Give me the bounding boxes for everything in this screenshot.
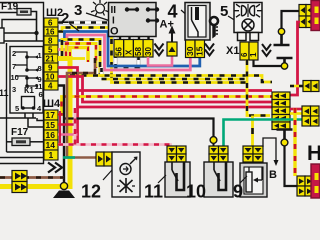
- svg-text:16: 16: [46, 28, 55, 37]
- svg-text:17: 17: [46, 110, 56, 120]
- top right connector 2x2 cells: [299, 5, 313, 28]
- fuse F19: [17, 9, 31, 16]
- wire yellow-black from X1 pin 6 down to cluster and item 9: [247, 60, 270, 116]
- crimson block bottom right: [311, 164, 320, 198]
- wire: [2, 20, 36, 29]
- svg-text:10: 10: [11, 73, 19, 82]
- wire black branch to item 10: [64, 119, 214, 138]
- item 3 pin cells 56 X 58 30: [114, 40, 153, 58]
- wire blue from Ш2 pin 8 to item4 pin 15: [58, 32, 200, 67]
- wire black from X1 pin 1 to terminal: [254, 60, 282, 66]
- item 3 contacts row 1: [125, 7, 159, 11]
- svg-text:X: X: [124, 49, 133, 55]
- wire crimson from Ш2 pin 9 down and right to cluster: [58, 68, 78, 145]
- terminal node: [281, 139, 288, 146]
- svg-text:15: 15: [194, 46, 204, 56]
- headlight symbol right: [250, 4, 262, 17]
- ground symbol: [53, 191, 75, 199]
- relay K1 pin numbers left: [11, 49, 19, 94]
- svg-text:30: 30: [144, 47, 153, 56]
- contact dots upper: [25, 55, 29, 59]
- wires below relay: [0, 113, 44, 127]
- item 3 pin legs: [120, 37, 149, 41]
- svg-text:10: 10: [46, 73, 55, 82]
- connector cell under A+ arrow: [167, 42, 177, 56]
- bottom right connector 2x2: [297, 176, 313, 196]
- fuse F17: [12, 138, 30, 146]
- pointer line for 12: [103, 170, 112, 180]
- wire yellow inner loop: [66, 44, 96, 69]
- F17 wires: [7, 142, 45, 152]
- relay K1 pin numbers right: [35, 51, 43, 99]
- svg-text:2: 2: [12, 49, 16, 58]
- inner divider wire: [6, 43, 8, 152]
- svg-text:9: 9: [233, 182, 243, 201]
- svg-text:5: 5: [15, 104, 19, 113]
- relay K1 contact group lower: [15, 76, 38, 86]
- svg-text:58: 58: [134, 47, 143, 56]
- item 11 box: [165, 162, 190, 197]
- switch item 3 box: [109, 3, 157, 37]
- wire from F19: [31, 12, 37, 42]
- terminal node: [281, 63, 287, 69]
- right connector block B: [302, 106, 319, 126]
- wire yellow-black from Ш2 pin 16, loops down to bundle row: [58, 28, 247, 83]
- wire black from Ш2 pin 4 down to ground: [58, 86, 64, 185]
- pointer line for 4: [181, 10, 190, 18]
- wire yellow-black stub cluster to right block: [290, 85, 303, 88]
- item 10 box: [204, 162, 233, 197]
- pointer line for 5: [228, 16, 236, 21]
- pointer line for 9: [240, 176, 247, 183]
- svg-text:X1: X1: [226, 45, 239, 57]
- svg-text:2: 2: [61, 10, 69, 27]
- wire crimson from top-right connector down to cluster: [290, 22, 300, 95]
- connector Ш4 pin strip: [44, 110, 58, 160]
- svg-text:7: 7: [12, 62, 16, 71]
- pointer line for 2: [70, 24, 79, 31]
- relay K1 box: [10, 47, 43, 114]
- wire pink from Ш2 pin 5 to item4 pin 30: [58, 35, 190, 70]
- wire yellow stub cluster to block B: [290, 112, 302, 115]
- arrow up to battery: [169, 26, 176, 43]
- item 10 connector 2x2: [209, 146, 228, 162]
- wire crimson bus on Ш4: [59, 111, 61, 146]
- arrow chevrons down after item 3 pins: [155, 44, 164, 56]
- connector Ш2 pin strip: [44, 18, 58, 91]
- wire with junction: [0, 32, 37, 34]
- svg-text:F17: F17: [11, 127, 29, 138]
- svg-text:F19: F19: [1, 2, 19, 13]
- svg-text:Н: Н: [307, 142, 320, 165]
- svg-text:11: 11: [144, 182, 163, 201]
- svg-text:3: 3: [12, 85, 16, 94]
- headlight symbol left: [235, 4, 247, 17]
- item 4 inner contact drawing: [188, 6, 206, 38]
- item 10 switch symbol: [214, 162, 226, 190]
- wire red-white dashed from bundle to item 11: [58, 108, 171, 147]
- wire yellow inner loop 2: [70, 48, 88, 63]
- wire black from top-right connector to terminal: [282, 11, 300, 29]
- arrow chevrons down after X1: [262, 44, 271, 56]
- wire yellow stub: [70, 57, 85, 60]
- wire yellow-black bundle row from yellow band to cluster: [70, 76, 272, 83]
- wire to fuse F19: [0, 12, 17, 14]
- lamp cluster item 5 box: [234, 3, 262, 41]
- item 9 box: [240, 163, 267, 197]
- svg-text:В: В: [269, 169, 277, 181]
- right connector block A: [303, 81, 319, 92]
- wire stub into item 10: [213, 143, 215, 146]
- wire yellow band from Ш2 pin 21 down to bottom left: [0, 59, 70, 187]
- terminal T-bar ground: [274, 35, 290, 45]
- wire crimson bundle row: [78, 89, 273, 92]
- svg-text:21: 21: [46, 55, 55, 64]
- node junction: [34, 31, 38, 35]
- crimson block top right: [311, 1, 320, 31]
- contact arrows upper: [35, 55, 39, 58]
- wire white-black from Ш2 pin 6 to item3 pin 58: [58, 23, 139, 68]
- item 3 contacts row 2: [146, 18, 159, 22]
- wire green stub at ground junction: [63, 156, 75, 159]
- svg-text:6: 6: [48, 19, 53, 28]
- wire yellow branch down to item 9 connector: [251, 116, 254, 147]
- pointer line for 11: [158, 175, 166, 183]
- wire pink stub Ш4 pin 16: [58, 133, 78, 136]
- wire red stub cluster to block B: [290, 108, 302, 111]
- svg-text:15: 15: [46, 120, 56, 130]
- item 11 switch symbol: [172, 162, 184, 190]
- wire crimson bundle row lower: [78, 106, 273, 109]
- node on wire to item 10: [210, 137, 217, 144]
- svg-text:12: 12: [81, 182, 101, 201]
- item 9 inner: [244, 167, 263, 194]
- item 4 pin cells 30 15: [185, 40, 205, 58]
- wire yellow-red bundle row from Ш4 pin 17: [58, 97, 272, 115]
- connector X1 cells: [240, 42, 258, 60]
- svg-text:8: 8: [38, 64, 42, 73]
- wire: [0, 40, 44, 42]
- wire brown from loop area down to item 12: [67, 58, 96, 158]
- terminal T-bar right: [277, 130, 293, 140]
- ground bolt node: [60, 182, 67, 189]
- svg-text:14: 14: [46, 140, 56, 150]
- item 11 connector 2x2: [167, 146, 186, 162]
- svg-text:4: 4: [168, 2, 178, 22]
- svg-text:3: 3: [74, 2, 82, 19]
- wire teal long from item 10 through cluster: [224, 120, 303, 147]
- wire yellow-black extra row: [102, 78, 246, 81]
- terminal T-bar: [277, 58, 293, 63]
- item 9 connector 2x2: [243, 146, 263, 162]
- svg-text:1: 1: [38, 51, 42, 60]
- wire white leg: [100, 67, 104, 77]
- lamp symbol circle-X: [242, 19, 254, 31]
- svg-text:16: 16: [46, 130, 56, 140]
- svg-text:30: 30: [185, 46, 195, 56]
- svg-text:5: 5: [220, 3, 228, 20]
- wire yellow-red vertical to bottom connector: [293, 108, 296, 176]
- key icon: [210, 17, 218, 39]
- svg-text:II: II: [111, 5, 117, 16]
- svg-text:6: 6: [240, 52, 249, 57]
- item 12 box: [112, 152, 140, 197]
- wire crimson from Ш2 pin 10 to cluster: [58, 77, 272, 103]
- arrow chevrons right after Ш4: [48, 163, 62, 173]
- fuse block outline: [0, 3, 44, 164]
- svg-text:К1: К1: [24, 85, 34, 95]
- svg-text:56: 56: [115, 47, 124, 56]
- cluster of chevron connectors: [272, 92, 290, 130]
- svg-text:1: 1: [49, 150, 54, 160]
- svg-text:10: 10: [186, 182, 206, 201]
- relay K1 coil: [22, 97, 35, 109]
- pink U wire pin30 to A plus: [148, 56, 172, 66]
- svg-text:9: 9: [48, 64, 53, 73]
- svg-text:5: 5: [48, 46, 53, 55]
- lamp icon of item 3: [91, 0, 109, 16]
- wire yellow-black inner loop: [62, 40, 100, 76]
- svg-text:4: 4: [48, 82, 53, 91]
- coil pin 4: [32, 106, 36, 110]
- svg-text:Ш4: Ш4: [43, 98, 61, 110]
- item 12 crossed symbol: [117, 178, 135, 193]
- connector on block edge: [0, 28, 4, 43]
- contact dots lower: [25, 76, 29, 80]
- coil pin 5: [21, 106, 25, 110]
- svg-text:8: 8: [48, 37, 53, 46]
- svg-text:11: 11: [0, 88, 9, 98]
- svg-text:1: 1: [249, 52, 258, 57]
- relay K1 contact group upper: [15, 52, 38, 70]
- arrow chevrons down after item 4 pins: [205, 44, 214, 56]
- reference arrow B from item 9: [263, 138, 279, 166]
- terminal node: [278, 28, 284, 34]
- contact arrows lower: [35, 76, 39, 79]
- svg-text:O: O: [110, 26, 119, 38]
- wire black down to bottom-right connector: [285, 146, 298, 186]
- item 12 connector cells: [96, 152, 112, 166]
- pointer line for 3: [86, 13, 109, 21]
- item 12 sensor symbol: [120, 157, 138, 175]
- wire crimson stub Ш4 pin 15: [58, 123, 78, 126]
- wire brown long bottom: [0, 176, 64, 179]
- connector pair on brown and yellow wires: [12, 171, 27, 193]
- ignition switch item 4 box: [185, 3, 210, 41]
